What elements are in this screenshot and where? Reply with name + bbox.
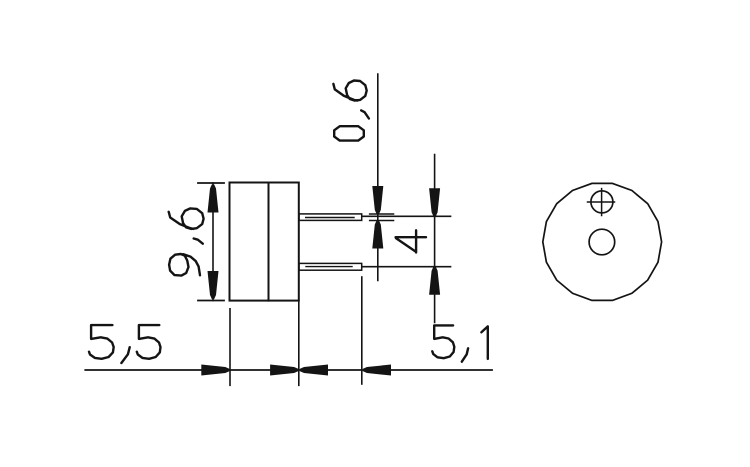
extension line body right (298, 301, 300, 386)
buzzer front view outline (polygon circle) (543, 183, 662, 300)
arrow left of body-right line (270, 365, 298, 376)
arrow at body left (201, 365, 229, 376)
sound hole with cross marking (591, 191, 613, 213)
dim text 0,6 (rotated) (334, 126, 364, 140)
center hole (589, 229, 615, 255)
cross horizontal (588, 201, 615, 203)
extension line body left (229, 309, 231, 386)
dim 9,6 lower arrow (208, 271, 219, 299)
dim 0,6 dimension line (377, 74, 379, 281)
dim text 9,6 (rotated) (169, 254, 200, 276)
dim 0,6 lower arrow (372, 221, 383, 249)
top pin lead (299, 214, 362, 221)
bottom dimension line (85, 369, 492, 371)
dim 9,6 bottom extension tick (198, 300, 224, 302)
dim text 5,5 (89, 325, 114, 359)
cross vertical (601, 189, 603, 216)
top pin inner line (306, 217, 354, 219)
dim 0,6 bottom tick (370, 220, 394, 222)
arrow right of pin-end line (363, 365, 391, 376)
dim text 4 (rotated) (396, 230, 426, 252)
dim 4 top extension line (362, 215, 450, 217)
buzzer body (side view) (230, 183, 299, 301)
dim 9,6 top extension tick (198, 182, 224, 184)
arrow right of body-right line (300, 365, 328, 376)
body seam line (268, 183, 270, 301)
dim 9,6 dimension line (212, 183, 214, 301)
extension line pin end (361, 277, 363, 384)
dim text 5,1 (432, 325, 454, 358)
bottom pin lead (299, 263, 362, 270)
dim 9,6 upper arrow (208, 185, 219, 213)
dim 4 upper arrow (429, 188, 440, 216)
dim 4 dimension line (434, 155, 436, 323)
dim 0,6 upper arrow (372, 186, 383, 214)
dim 0,6 top tick (370, 213, 394, 215)
bottom pin inner line (306, 266, 352, 268)
dim 4 lower arrow (429, 267, 440, 295)
dim 4 bottom extension line (362, 266, 450, 268)
